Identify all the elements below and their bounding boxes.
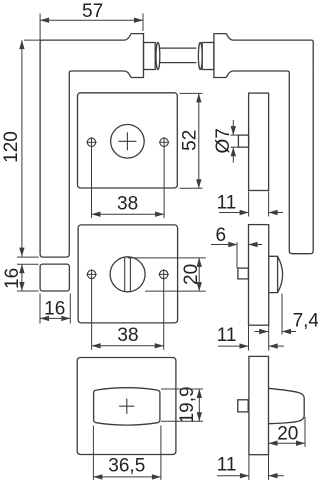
svg-text:11: 11 xyxy=(217,455,237,476)
svg-text:19,9: 19,9 xyxy=(177,386,198,423)
svg-text:38: 38 xyxy=(117,193,138,214)
svg-text:Ø7: Ø7 xyxy=(213,128,234,153)
svg-text:11: 11 xyxy=(217,192,237,213)
svg-text:52: 52 xyxy=(180,130,201,151)
svg-text:11: 11 xyxy=(217,325,237,346)
svg-text:57: 57 xyxy=(82,1,103,22)
svg-text:38: 38 xyxy=(117,325,138,346)
svg-text:120: 120 xyxy=(1,131,22,163)
svg-text:6: 6 xyxy=(216,225,227,246)
svg-text:20: 20 xyxy=(277,423,298,444)
svg-text:7,4: 7,4 xyxy=(293,310,318,331)
svg-text:36,5: 36,5 xyxy=(108,455,145,476)
